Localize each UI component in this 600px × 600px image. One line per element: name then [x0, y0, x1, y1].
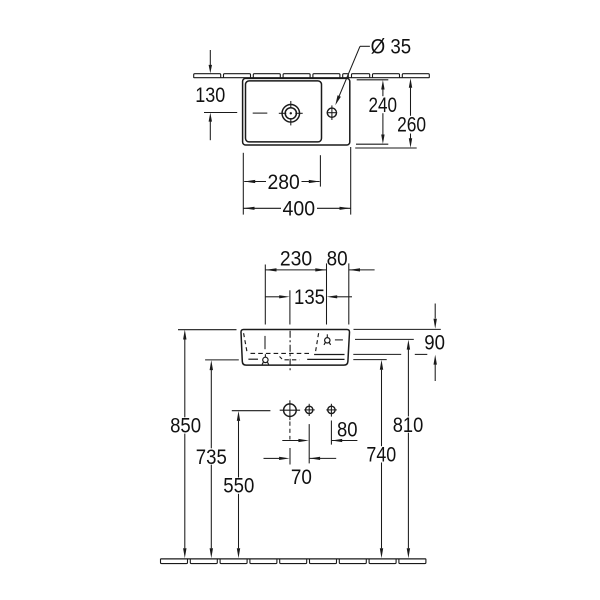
- svg-text:90: 90: [424, 331, 445, 354]
- svg-text:230: 230: [280, 248, 312, 271]
- svg-text:135: 135: [294, 286, 325, 309]
- svg-text:Ø 35: Ø 35: [371, 36, 412, 59]
- svg-text:80: 80: [337, 419, 358, 442]
- svg-text:280: 280: [267, 171, 299, 194]
- svg-text:260: 260: [397, 114, 426, 137]
- svg-text:400: 400: [283, 197, 316, 220]
- svg-text:80: 80: [327, 248, 348, 271]
- svg-text:850: 850: [170, 415, 201, 438]
- svg-text:70: 70: [291, 466, 312, 489]
- svg-text:130: 130: [195, 84, 225, 107]
